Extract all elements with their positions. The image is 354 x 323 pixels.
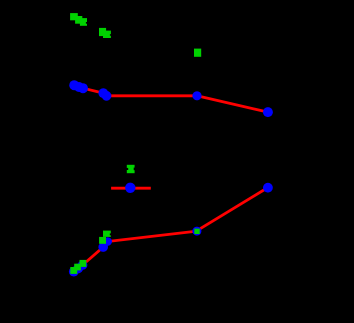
blue point C	[192, 91, 201, 100]
red error bar through E	[111, 187, 151, 190]
red line upper C-D	[197, 96, 268, 112]
blue cluster A	[69, 80, 88, 93]
blue point I	[263, 183, 273, 193]
green inner G7	[194, 229, 199, 234]
red line upper A-B	[83, 88, 103, 93]
blue point H	[192, 227, 201, 236]
blue point E	[125, 183, 135, 193]
red line lower J-F	[83, 247, 104, 265]
red line lower H-I	[197, 188, 268, 231]
blue cluster B	[98, 88, 111, 101]
green bowtie G5	[103, 231, 111, 237]
green square G6	[99, 237, 106, 244]
blue chain J	[69, 260, 87, 276]
green chain G2	[99, 28, 111, 38]
red line lower F-H	[108, 231, 197, 241]
blue point D	[263, 107, 273, 117]
blue cluster F	[98, 237, 112, 252]
red line upper B-C	[107, 94, 198, 97]
green chain G8	[70, 260, 86, 274]
green single G3	[194, 49, 201, 57]
green bowtie G4	[126, 165, 135, 173]
green chain G1	[70, 13, 87, 26]
